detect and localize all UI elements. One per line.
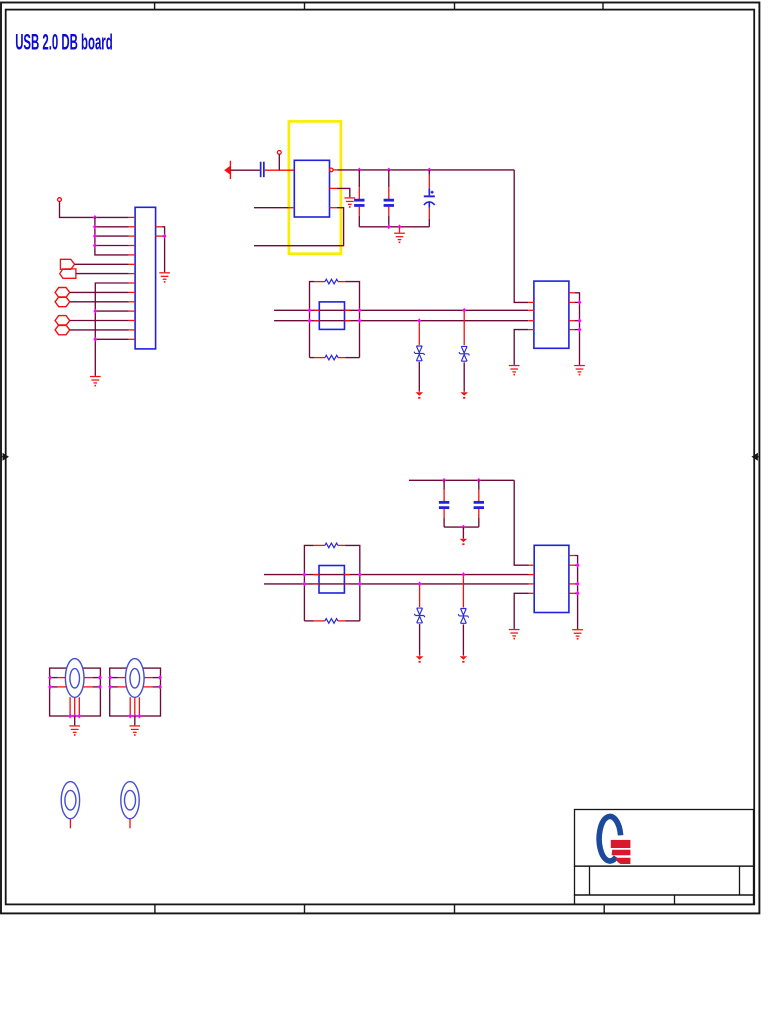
node junction loop right DM	[358, 318, 362, 323]
port arrow left net2	[60, 269, 76, 278]
port arrow right net1	[60, 259, 74, 269]
ground U1	[344, 197, 355, 208]
hex node A2	[55, 297, 70, 307]
wire U2 right rail	[575, 293, 580, 365]
wire VCC2 down to U3	[514, 480, 528, 565]
logo red stripe 2	[612, 850, 631, 856]
pin stub U1 left2	[289, 207, 295, 209]
capacitor C1	[354, 170, 364, 227]
connector J1 right pin stubs	[156, 227, 163, 236]
wire J3 shield stem	[134, 716, 136, 725]
wire diff pair upper DP	[274, 309, 528, 311]
logo red stripe 1	[611, 840, 631, 848]
wire U2 pin4 to ground	[514, 330, 528, 365]
node junction bottom rail gnd2	[461, 525, 465, 530]
pin stubs U2 left	[528, 302, 534, 329]
right edge center arrow	[752, 454, 759, 460]
wire right pins to ground	[162, 227, 165, 272]
node junction D4 DP	[461, 572, 465, 577]
wire U3 pin4 to ground	[514, 593, 528, 629]
wire bus branch pin11	[95, 310, 128, 312]
power arrow cap pair	[460, 539, 468, 545]
wire C4 to U1	[265, 169, 295, 171]
wire VCC2 top rail	[409, 479, 514, 481]
resistor R1 top loop	[310, 279, 360, 357]
ground U3 pin4	[509, 629, 520, 640]
pin stubs U2 right	[569, 293, 575, 330]
node junction rail C2	[387, 167, 391, 172]
connector J1 left pin stubs	[129, 217, 136, 339]
wire bus lower	[95, 283, 128, 376]
frame zone ticks	[155, 3, 605, 914]
node junction bus pin2	[93, 224, 97, 229]
diode D2 TVS	[459, 310, 469, 391]
svg-text:USB 2.0 DB board: USB 2.0 DB board	[15, 29, 113, 54]
wire hexB1 to pin12	[70, 320, 129, 322]
ground rail	[394, 233, 405, 244]
node junction D2 DP	[462, 308, 466, 313]
pin bubble U1 output	[330, 168, 334, 172]
node junction loop2 left DM	[302, 581, 306, 586]
node junction bus pin11	[93, 309, 97, 314]
resistor R3 top loop	[304, 543, 359, 621]
wire bus branch pin14	[95, 338, 128, 340]
left edge center arrow	[1, 454, 8, 460]
ground bus lower	[90, 376, 101, 387]
node junction bottom rail gnd	[398, 224, 402, 229]
wire bus branch pin3	[95, 235, 129, 237]
wire U1 output rail	[338, 169, 515, 171]
node junction U3 rail b	[576, 581, 580, 586]
node junction rail C1	[357, 167, 361, 172]
node junction bus pin4	[93, 243, 97, 248]
ic U3 body	[534, 545, 569, 612]
wire VREG stem	[278, 154, 280, 170]
wire diff pair upper DM	[274, 320, 528, 322]
node junction D1 DM	[417, 318, 421, 323]
wire bus upper	[95, 217, 129, 255]
diode D3 TVS	[414, 584, 424, 656]
mounting hole MH1	[61, 782, 79, 829]
port arrow VIN	[224, 161, 230, 179]
node junction VCC2 C6	[442, 478, 446, 483]
choke L2 body	[319, 566, 344, 594]
connector J1 body	[135, 207, 156, 349]
wire U1 right pin3 loop	[254, 208, 344, 246]
ic U2 body	[534, 281, 569, 348]
capacitor C3 polarized	[424, 170, 435, 227]
node junction pin1 bus	[93, 215, 97, 220]
wire J2 shield stem	[74, 716, 76, 725]
node junction loop left DM	[308, 318, 312, 323]
wire net2 to pin7	[76, 273, 129, 275]
ground J3	[129, 725, 140, 736]
regulator U1	[294, 160, 329, 217]
pin stubs choke L2	[313, 575, 350, 584]
capacitor C2	[384, 170, 394, 227]
node junction U2 rail b	[578, 318, 582, 323]
ground J2	[69, 725, 80, 736]
terminal circle P1	[58, 198, 62, 202]
wire VIN to C4	[230, 169, 259, 171]
node junction right pins	[163, 234, 167, 239]
power arrow D2	[460, 392, 468, 398]
highlight box yellow	[289, 121, 341, 253]
node junction loop left DP	[308, 308, 312, 313]
wire bus branch pin2	[95, 226, 129, 228]
wire hexA2 to pin10	[70, 301, 129, 303]
resistor R4 bottom loop	[304, 619, 359, 624]
node junction U3 rail a	[576, 563, 580, 568]
node junction bus pin3	[93, 234, 97, 239]
node junction loop right DP	[358, 308, 362, 313]
logo blue C arc	[599, 816, 620, 861]
node junction loop2 left DP	[302, 572, 306, 577]
ground right pins	[159, 272, 170, 283]
node junction D3 DM	[418, 581, 422, 586]
wire terminal to pin1	[60, 202, 129, 218]
node junction U2 rail c	[578, 327, 582, 332]
pin stubs choke L1	[314, 310, 351, 320]
mounting hole MH2	[121, 782, 139, 829]
usb jack J2	[48, 659, 102, 719]
node junction rail C3	[427, 167, 431, 172]
title block middle row	[575, 866, 754, 895]
pin stubs U3 right	[569, 556, 575, 594]
title block logo box	[575, 810, 754, 867]
wire VCC rail to U2	[514, 170, 528, 303]
diode D4 TVS	[458, 575, 468, 656]
wire U1 gnd pin	[337, 188, 350, 197]
pin stubs U3 left	[529, 565, 535, 593]
pin stub U1 gnd	[330, 187, 338, 189]
wire bus branch pin4	[95, 245, 129, 247]
logo red stripe 3	[615, 858, 630, 864]
power arrow D3	[416, 656, 424, 662]
node junction VCC2 C7	[477, 478, 481, 483]
wire U1 left pin2	[254, 207, 289, 209]
node junction bus pin14	[93, 337, 97, 342]
capacitor C6	[439, 480, 449, 527]
wire hexB2 to pin13	[70, 329, 129, 331]
ground U2 right rail	[574, 365, 585, 376]
wire U3 right rail	[575, 556, 578, 630]
wire cap pair bottom rail	[444, 526, 479, 528]
title text USB 2.0 DB board	[15, 29, 113, 54]
wire diff pair lower DP	[264, 574, 529, 576]
wire cap bottom rail	[359, 226, 429, 228]
wire diff pair lower DM	[264, 583, 529, 585]
node junction loop2 right DP	[358, 572, 362, 577]
pin stub U1 right3	[330, 207, 338, 209]
usb jack J3	[108, 659, 162, 719]
hex node A1	[55, 288, 70, 298]
power arrow D4	[460, 656, 468, 662]
hex node B1	[55, 316, 70, 326]
diode D1 TVS	[414, 321, 424, 392]
title block bottom row	[575, 895, 754, 904]
node junction U3 rail c	[576, 591, 580, 596]
node junction U2 rail a	[578, 300, 582, 305]
pin stub U1 output	[333, 169, 337, 171]
choke L1 body	[319, 302, 344, 330]
pin stub gnd2	[462, 527, 464, 538]
ground U2 pin4	[509, 365, 520, 376]
hex node B2	[55, 325, 70, 335]
terminal circle VREG	[277, 151, 281, 155]
capacitor C4 series	[260, 162, 265, 178]
pin stub rail gnd	[399, 227, 401, 233]
power arrow D1	[416, 392, 424, 398]
wire hexA1 to pin9	[70, 291, 129, 293]
capacitor C7	[474, 480, 484, 527]
wire net1 to pin6	[75, 263, 129, 265]
resistor R2 bottom loop	[310, 355, 360, 360]
node junction loop2 right DM	[358, 581, 362, 586]
ground U3 right rail	[572, 629, 583, 640]
node junction bottom rail C2	[387, 224, 391, 229]
